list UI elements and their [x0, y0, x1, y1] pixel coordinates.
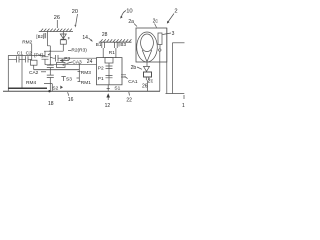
rail P3	[50, 56, 52, 58]
lamp neck	[146, 62, 148, 66]
label CA3 with leader	[67, 62, 73, 64]
svg-text:CA2: CA2	[29, 70, 39, 76]
svg-text:22: 22	[126, 97, 132, 103]
label 1 with leader	[183, 95, 185, 99]
svg-text:2c: 2c	[153, 19, 159, 25]
right cap branch down	[30, 58, 32, 61]
capacitor P3 plates	[53, 55, 97, 62]
internal capacitor upper	[106, 66, 113, 68]
label R2(R3) with leader	[68, 50, 71, 52]
svg-text:26: 26	[54, 15, 60, 21]
open terminal dot	[159, 49, 161, 51]
svg-text:S2: S2	[52, 85, 58, 91]
terminal B1 pins	[102, 42, 105, 48]
pointer S2	[60, 86, 63, 90]
label 20 with arrow	[74, 14, 77, 28]
ground hatch line 28 (right)	[99, 39, 132, 42]
svg-text:P3: P3	[64, 56, 70, 62]
svg-text:16: 16	[68, 97, 74, 103]
svg-text:C2: C2	[26, 50, 32, 56]
resistor RM3 leader and label	[78, 71, 81, 73]
svg-text:28: 28	[102, 32, 108, 38]
internal capacitor lower	[106, 75, 113, 77]
svg-text:P1: P1	[98, 76, 104, 82]
resistor RM1 leader and label	[78, 81, 81, 83]
rail A	[45, 64, 97, 66]
svg-text:10: 10	[126, 8, 132, 14]
lamp unit wall inner	[166, 28, 168, 94]
terminal B3 pins	[115, 42, 119, 57]
terminal B2 pins	[44, 33, 46, 38]
top wire of C1 C2	[8, 54, 45, 56]
lamp element 3	[158, 33, 162, 49]
pointer P4	[48, 53, 51, 56]
capacitor CA1	[121, 75, 128, 79]
svg-text:2: 2	[174, 9, 177, 15]
wire R2 to node	[44, 50, 63, 52]
pointer P3	[60, 59, 69, 61]
svg-text:[B2]: [B2]	[36, 34, 44, 39]
svg-text:3: 3	[172, 31, 175, 37]
diode F	[60, 32, 66, 40]
pinch seal triangle 2b	[144, 66, 150, 71]
svg-text:CA1: CA1	[128, 79, 138, 85]
svg-text:26: 26	[142, 83, 148, 89]
resistor R1	[103, 48, 113, 85]
svg-text:S3: S3	[66, 76, 72, 82]
arrow 12	[106, 93, 110, 100]
socket housing top	[172, 42, 184, 44]
node dot P4 junction	[49, 50, 51, 52]
switch S2 wire	[44, 84, 52, 92]
capacitor C1	[8, 56, 25, 62]
left box border	[8, 55, 47, 91]
branch down from rail B	[77, 64, 80, 82]
label 3 with leader	[163, 33, 172, 35]
svg-text:14: 14	[82, 35, 88, 41]
resistor RM2 box and label	[31, 44, 33, 60]
svg-text:RM2: RM2	[22, 40, 32, 46]
svg-text:RM4: RM4	[26, 80, 36, 86]
svg-text:P2: P2	[98, 66, 104, 72]
svg-text:B3: B3	[120, 42, 126, 47]
igniter box 24	[97, 58, 123, 85]
capacitor CA2 on B2 wire	[47, 57, 54, 91]
svg-text:18: 18	[48, 101, 54, 107]
label 10 with curved arrow	[120, 11, 126, 19]
svg-text:S1: S1	[114, 85, 120, 91]
label 2 with arrow	[167, 14, 174, 24]
label 26 with leader	[56, 20, 58, 28]
label 2c top with leader	[155, 24, 157, 28]
socket housing left wall	[171, 43, 173, 94]
wire from terminal down	[159, 51, 161, 91]
label 2a	[134, 24, 137, 27]
lamp box 2	[136, 28, 167, 62]
label 14 with arrow	[89, 38, 93, 42]
small box below C2	[31, 60, 38, 69]
label 2b with leader	[137, 67, 142, 69]
label CA2 with leader	[41, 71, 46, 73]
capacitor at P4 node	[42, 51, 49, 64]
svg-text:2a: 2a	[128, 19, 134, 25]
arc tube inner	[141, 34, 154, 52]
svg-text:24: 24	[87, 59, 93, 65]
wire from B2 down	[47, 32, 50, 58]
svg-text:2c: 2c	[148, 79, 154, 85]
tap wire between C1 C2	[21, 55, 23, 88]
lamp base box	[144, 72, 152, 77]
bulb outer envelope	[137, 32, 158, 62]
bottom bus 18	[3, 90, 160, 92]
svg-text:2b: 2b	[131, 65, 137, 71]
label 16 with leader	[68, 92, 69, 96]
svg-text:RM3: RM3	[81, 70, 91, 76]
resistor R2(R3) box	[60, 40, 66, 51]
capacitor C2	[26, 56, 32, 62]
svg-text:R2(R3): R2(R3)	[71, 48, 87, 54]
rail B	[34, 69, 80, 71]
switch S1	[107, 85, 110, 91]
svg-text:F: F	[68, 36, 71, 41]
base pins	[146, 77, 149, 91]
lead wires V	[142, 50, 152, 61]
svg-text:20: 20	[72, 9, 78, 15]
box CA3	[57, 63, 66, 68]
switch S3 symbol	[61, 77, 66, 82]
socket housing bottom	[166, 93, 185, 95]
ground hatch line 26 (left)	[39, 29, 73, 32]
svg-text:1: 1	[182, 103, 185, 109]
svg-text:B1: B1	[96, 42, 102, 47]
label 22 with leader	[128, 92, 131, 96]
svg-text:R1: R1	[109, 50, 115, 56]
svg-text:RM1: RM1	[81, 80, 91, 86]
svg-text:12: 12	[105, 103, 111, 109]
